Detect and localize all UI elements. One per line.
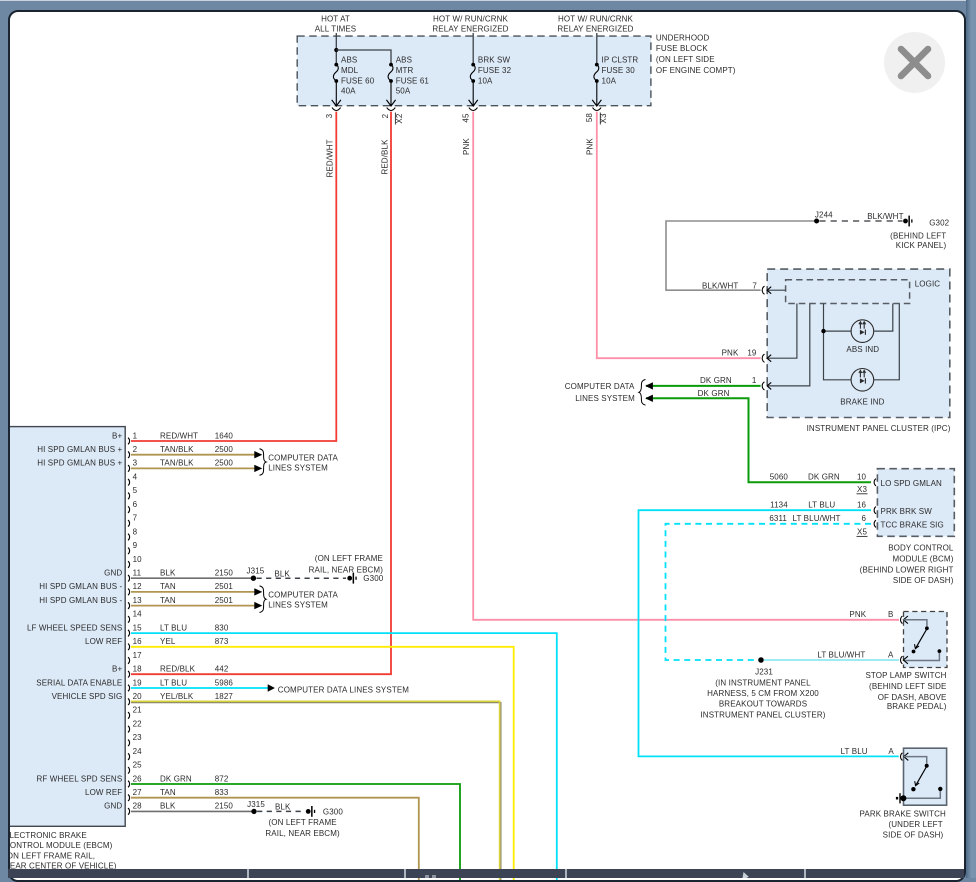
arrow pin19	[268, 684, 275, 692]
pin arrow fuse 30 output	[592, 100, 601, 106]
wire LT BLU pin15 to bottom	[131, 633, 557, 880]
svg-text:45: 45	[462, 113, 471, 123]
wire logic to pin19 PNK	[767, 304, 797, 359]
svg-text:G302: G302	[929, 219, 949, 228]
arrow pin3	[254, 465, 262, 472]
svg-text:(BEHIND LEFT: (BEHIND LEFT	[890, 231, 946, 240]
svg-text:HOT AT: HOT AT	[321, 14, 350, 23]
wire BLK pin28 to J315	[131, 810, 252, 812]
lamp ABS IND	[851, 320, 874, 343]
wire label YEL 873 pin16	[160, 637, 229, 646]
svg-text:OF ENGINE COMPT): OF ENGINE COMPT)	[656, 66, 736, 75]
svg-text:830: 830	[215, 623, 229, 632]
wire feed fuse 60	[335, 33, 337, 64]
svg-text:(ON LEFT FRAME: (ON LEFT FRAME	[315, 554, 383, 563]
svg-text:2150: 2150	[215, 802, 234, 811]
svg-text:PNK: PNK	[722, 349, 739, 358]
arrow pin13	[254, 602, 262, 609]
svg-text:LT BLU/WHT: LT BLU/WHT	[793, 514, 841, 523]
svg-text:10: 10	[857, 473, 867, 482]
svg-text:(BEHIND LOWER RIGHT: (BEHIND LOWER RIGHT	[860, 565, 954, 574]
wire label RED/BLK 442 pin18	[160, 665, 229, 674]
svg-text:PARK BRAKE SWITCH: PARK BRAKE SWITCH	[860, 810, 946, 819]
svg-text:6: 6	[862, 514, 867, 523]
fuse F61 ABS MTR FUSE 61 50A	[388, 63, 393, 106]
brace computer data lines pins 2-3	[260, 449, 267, 476]
svg-text:LF WHEEL SPEED SENS: LF WHEEL SPEED SENS	[27, 623, 122, 632]
svg-text:PRK BRK SW: PRK BRK SW	[881, 507, 933, 516]
svg-text:KICK PANEL): KICK PANEL)	[896, 241, 947, 250]
BCM caption	[860, 544, 954, 585]
wire TAN/BLK pin2	[131, 454, 255, 456]
svg-text:19: 19	[747, 349, 757, 358]
svg-text:BLK: BLK	[160, 802, 176, 811]
svg-text:J231: J231	[755, 668, 773, 677]
svg-text:STOP LAMP SWITCH: STOP LAMP SWITCH	[865, 671, 946, 680]
svg-text:40A: 40A	[341, 87, 356, 96]
svg-text:(ON LEFT FRAME: (ON LEFT FRAME	[268, 818, 336, 827]
wire RED/WHT fuse60 to EBCM pin1	[131, 112, 336, 441]
pin arrow fuse 61 output	[386, 100, 395, 106]
wire label LT BLU 5986 pin19	[160, 678, 233, 687]
svg-text:6311: 6311	[769, 514, 787, 523]
wire label LT BLU/WHT (stop lamp)	[817, 651, 894, 660]
park brake switch box	[904, 748, 947, 805]
svg-text:RF WHEEL SPD SENS: RF WHEEL SPD SENS	[37, 774, 123, 783]
svg-text:HI SPD GMLAN BUS -: HI SPD GMLAN BUS -	[39, 582, 122, 591]
svg-text:HOT W/ RUN/CRNK: HOT W/ RUN/CRNK	[433, 14, 509, 23]
wire TAN/BLK pin3	[131, 467, 255, 469]
wire BLK/WHT dashed to G302	[819, 220, 902, 222]
EBCM pin numbers 1-28	[133, 431, 143, 810]
junction J315 (pin11)	[251, 576, 256, 581]
wire logic to pin1 DK GRN	[767, 304, 810, 386]
svg-text:BLK: BLK	[275, 803, 291, 812]
svg-text:1640: 1640	[215, 431, 234, 440]
svg-text:10A: 10A	[478, 76, 493, 85]
EBCM pin arcs 1-28	[128, 438, 130, 815]
svg-text:MDL: MDL	[341, 66, 359, 75]
svg-text:LO SPD GMLAN: LO SPD GMLAN	[881, 479, 943, 488]
svg-text:CONTROL MODULE (EBCM): CONTROL MODULE (EBCM)	[10, 841, 113, 850]
wire TAN pin27 to bottom	[131, 798, 419, 880]
svg-text:28: 28	[133, 802, 143, 811]
ground at park brake switch	[896, 793, 907, 803]
svg-text:LT BLU: LT BLU	[160, 678, 187, 687]
svg-text:HARNESS, 5 CM FROM X200: HARNESS, 5 CM FROM X200	[707, 689, 819, 698]
svg-text:8: 8	[133, 527, 138, 536]
svg-text:LOW REF: LOW REF	[85, 637, 122, 646]
ground G300 (near pin11)	[347, 573, 383, 584]
svg-text:DK GRN: DK GRN	[700, 376, 732, 385]
ground G300 (near pin28)	[306, 806, 344, 817]
svg-text:10: 10	[133, 555, 143, 564]
connector arc under fuse 61	[387, 108, 396, 111]
svg-text:TAN: TAN	[160, 788, 176, 797]
svg-text:ABS: ABS	[341, 56, 357, 65]
wire feed branch to fuse 61	[336, 50, 391, 64]
svg-text:X5: X5	[857, 527, 867, 536]
svg-text:2500: 2500	[215, 445, 234, 454]
EBCM caption	[4, 831, 117, 871]
wire ABS bulb to logic	[874, 304, 893, 332]
svg-text:LINES SYSTEM: LINES SYSTEM	[268, 601, 328, 610]
svg-text:LT BLU: LT BLU	[841, 747, 868, 756]
svg-text:10A: 10A	[602, 76, 617, 85]
wire logic to indicator bulbs	[824, 304, 851, 380]
switch arm stop lamp	[912, 626, 942, 653]
pin 10 BCM X3	[857, 473, 877, 494]
svg-text:LT BLU: LT BLU	[808, 501, 835, 510]
wire BLK/WHT IPC pin7 to J244	[767, 289, 786, 291]
EBCM module box	[6, 427, 125, 827]
svg-text:7: 7	[133, 514, 138, 523]
svg-text:A: A	[888, 747, 894, 756]
BCM module box	[877, 469, 954, 537]
svg-text:BRAKE IND: BRAKE IND	[840, 398, 884, 407]
close button	[884, 32, 945, 93]
svg-text:16: 16	[133, 637, 143, 646]
switch contacts stop lamp	[903, 620, 939, 661]
svg-text:2500: 2500	[215, 459, 234, 468]
svg-text:58: 58	[585, 113, 594, 123]
arrow pin12	[254, 588, 262, 595]
svg-text:2: 2	[381, 113, 390, 118]
svg-text:COMPUTER DATA: COMPUTER DATA	[565, 382, 635, 391]
svg-text:LINES SYSTEM: LINES SYSTEM	[575, 394, 635, 403]
wire PNK fuse30 to IPC pin19	[597, 112, 761, 359]
connector label X2	[395, 113, 404, 125]
node COMPUTER DATA LINES SYSTEM (pins 12-13)	[268, 591, 338, 610]
svg-text:J315: J315	[247, 567, 265, 576]
IPC module box	[767, 269, 950, 417]
svg-text:23: 23	[133, 733, 143, 742]
svg-text:RELAY ENERGIZED: RELAY ENERGIZED	[432, 25, 508, 34]
svg-text:5060: 5060	[770, 473, 789, 482]
svg-text:(ON LEFT SIDE: (ON LEFT SIDE	[656, 55, 715, 64]
right background strip	[966, 0, 976, 878]
svg-text:4: 4	[133, 473, 138, 482]
junction J315 (pin28)	[251, 809, 256, 814]
svg-text:LT BLU: LT BLU	[160, 623, 187, 632]
svg-text:LOGIC: LOGIC	[915, 280, 941, 289]
svg-text:YEL/BLK: YEL/BLK	[160, 692, 194, 701]
node COMPUTER DATA LINES SYSTEM (IPC side)	[565, 382, 635, 403]
svg-text:PNK: PNK	[849, 610, 866, 619]
svg-text:COMPUTER DATA: COMPUTER DATA	[268, 453, 338, 462]
svg-text:FUSE BLOCK: FUSE BLOCK	[656, 44, 708, 53]
wire LT BLU BCM pin16 to park brake switch	[639, 510, 899, 756]
svg-text:PNK: PNK	[462, 138, 471, 155]
svg-text:BRAKE PEDAL): BRAKE PEDAL)	[887, 702, 947, 711]
svg-text:OF DASH, ABOVE: OF DASH, ABOVE	[878, 693, 947, 702]
wire label TAN/BLK 2500 pin2	[160, 445, 233, 454]
stop lamp switch box	[904, 612, 948, 668]
svg-text:ELECTRONIC BRAKE: ELECTRONIC BRAKE	[10, 831, 87, 840]
wire label BLK 2150 pin11	[160, 569, 233, 578]
svg-text:LINES SYSTEM: LINES SYSTEM	[268, 463, 328, 472]
svg-text:12: 12	[133, 582, 143, 591]
wire DK GRN BCM branch to computer data	[646, 398, 871, 482]
svg-text:SIDE OF DASH): SIDE OF DASH)	[893, 576, 954, 585]
wire label TAN 2501 pin13	[160, 596, 233, 605]
svg-text:TAN/BLK: TAN/BLK	[160, 445, 194, 454]
svg-text:9: 9	[133, 541, 138, 550]
wire label 5060 DK GRN	[770, 473, 840, 482]
svg-text:17: 17	[133, 651, 143, 660]
svg-text:FUSE 32: FUSE 32	[478, 66, 512, 75]
connector arc under fuse 32	[469, 108, 478, 111]
wire label TAN/BLK 2500 pin3	[160, 459, 233, 468]
node COMPUTER DATA LINES SYSTEM (pins 2-3)	[268, 453, 338, 472]
wire LT BLU/WHT dashed BCM pin6 to J231	[666, 524, 872, 660]
pin 19 IPC	[762, 354, 771, 362]
svg-text:X3: X3	[857, 485, 867, 494]
wire PNK fuse32 to stop lamp switch pin B	[473, 112, 899, 620]
svg-text:LT BLU/WHT: LT BLU/WHT	[817, 651, 865, 660]
svg-text:HOT W/ RUN/CRNK: HOT W/ RUN/CRNK	[558, 14, 634, 23]
svg-text:B: B	[888, 610, 893, 619]
fuse F32 BRK SW FUSE 32 10A	[470, 63, 475, 106]
wire BLK pin11 to J315	[131, 577, 251, 579]
svg-text:873: 873	[215, 637, 229, 646]
lamp BRAKE IND	[851, 369, 874, 392]
pin A park brake switch	[901, 753, 909, 761]
fuse F30 IP CLSTR FUSE 30 10A	[594, 63, 599, 106]
pin arrow fuse 60 output	[332, 100, 341, 106]
wire feed fuse 32	[472, 33, 474, 64]
svg-text:(IN INSTRUMENT PANEL: (IN INSTRUMENT PANEL	[715, 678, 811, 687]
label ON LEFT FRAME RAIL NEAR EBCM (pin28)	[265, 818, 340, 838]
svg-text:(BEHIND LEFT SIDE: (BEHIND LEFT SIDE	[869, 682, 946, 691]
wire YEL pin16 to bottom	[131, 647, 514, 880]
value label fuse 30	[602, 56, 639, 86]
svg-text:16: 16	[857, 501, 867, 510]
switch arm park brake	[911, 764, 942, 792]
svg-text:VEHICLE SPD SIG: VEHICLE SPD SIG	[52, 692, 123, 701]
wire LT BLU pin19 serial data	[131, 687, 268, 689]
svg-text:25: 25	[133, 761, 143, 770]
wire label DK GRN 872 pin26	[160, 774, 229, 783]
label BEHIND LEFT KICK PANEL	[890, 231, 946, 250]
svg-text:21: 21	[133, 706, 143, 715]
label HOT AT ALL TIMES	[315, 14, 357, 33]
wire label 6311 LT BLU/WHT	[769, 514, 840, 523]
svg-text:LOW REF: LOW REF	[85, 788, 122, 797]
pin 7 IPC	[762, 286, 771, 294]
svg-text:BLK/WHT: BLK/WHT	[867, 212, 903, 221]
svg-text:1134: 1134	[770, 501, 788, 510]
wire BRAKE bulb to logic	[874, 304, 900, 380]
wire LT BLU/WHT J231 to stop lamp pin A	[764, 659, 899, 661]
svg-text:BODY CONTROL: BODY CONTROL	[888, 544, 954, 553]
svg-text:ABS: ABS	[396, 56, 412, 65]
svg-text:FUSE 60: FUSE 60	[341, 76, 375, 85]
svg-text:TAN: TAN	[160, 582, 176, 591]
svg-text:RED/WHT: RED/WHT	[326, 139, 335, 177]
svg-text:TCC BRAKE SIG: TCC BRAKE SIG	[881, 521, 944, 530]
svg-text:RAIL, NEAR EBCM): RAIL, NEAR EBCM)	[309, 565, 384, 574]
svg-text:RED/BLK: RED/BLK	[381, 139, 390, 175]
value label fuse 61	[396, 56, 430, 96]
svg-text:7: 7	[752, 281, 757, 290]
svg-text:RED/BLK: RED/BLK	[160, 665, 196, 674]
svg-text:HI SPD GMLAN BUS +: HI SPD GMLAN BUS +	[37, 445, 122, 454]
svg-text:2: 2	[133, 445, 138, 454]
value label fuse 60	[341, 56, 375, 96]
svg-text:1: 1	[133, 431, 138, 440]
svg-text:INSTRUMENT PANEL CLUSTER): INSTRUMENT PANEL CLUSTER)	[700, 710, 825, 719]
svg-text:BREAKOUT TOWARDS: BREAKOUT TOWARDS	[719, 699, 807, 708]
svg-text:RED/WHT: RED/WHT	[160, 431, 198, 440]
svg-text:BLK: BLK	[274, 569, 290, 578]
svg-text:SERIAL DATA ENABLE: SERIAL DATA ENABLE	[36, 678, 122, 687]
svg-text:INSTRUMENT PANEL CLUSTER (IPC): INSTRUMENT PANEL CLUSTER (IPC)	[807, 424, 951, 433]
svg-text:1: 1	[752, 376, 757, 385]
svg-text:833: 833	[215, 788, 229, 797]
wire TAN pin12	[131, 591, 255, 593]
svg-text:G300: G300	[363, 574, 383, 583]
svg-text:(ON LEFT FRAME RAIL,: (ON LEFT FRAME RAIL,	[10, 852, 95, 861]
brace computer data lines (IPC side)	[639, 380, 646, 406]
svg-text:IP CLSTR: IP CLSTR	[602, 56, 639, 65]
connector arc under fuse 30	[593, 108, 602, 111]
partial glyph dots in bottom bar	[425, 875, 429, 878]
svg-text:50A: 50A	[396, 87, 411, 96]
svg-text:442: 442	[215, 665, 229, 674]
svg-text:13: 13	[133, 596, 143, 605]
svg-text:B+: B+	[112, 665, 122, 674]
svg-text:5986: 5986	[215, 678, 234, 687]
svg-text:GND: GND	[104, 569, 122, 578]
svg-text:2501: 2501	[215, 596, 234, 605]
wire label DK GRN 1	[700, 376, 757, 385]
svg-text:HI SPD GMLAN BUS -: HI SPD GMLAN BUS -	[39, 596, 122, 605]
svg-text:BLK/WHT: BLK/WHT	[702, 281, 738, 290]
svg-text:872: 872	[215, 774, 229, 783]
svg-text:J315: J315	[247, 800, 265, 809]
stop lamp switch caption	[865, 671, 946, 711]
pin A stop lamp switch	[901, 656, 908, 664]
connector arc under fuse 60	[332, 108, 341, 111]
svg-text:HI SPD GMLAN BUS +: HI SPD GMLAN BUS +	[37, 459, 122, 468]
svg-text:DK GRN: DK GRN	[808, 473, 840, 482]
svg-text:UNDERHOOD: UNDERHOOD	[656, 33, 710, 42]
svg-text:2150: 2150	[215, 569, 234, 578]
brace computer data lines pins 12-13	[260, 586, 267, 613]
svg-text:15: 15	[133, 623, 143, 632]
svg-text:19: 19	[133, 678, 143, 687]
svg-text:J244: J244	[815, 211, 833, 220]
svg-text:24: 24	[133, 747, 143, 756]
arrow computer data (pin1)	[645, 382, 653, 389]
label HOT W/ RUN/CRNK RELAY ENERGIZED (right)	[557, 14, 633, 33]
wire label TAN 2501 pin12	[160, 582, 233, 591]
svg-text:5: 5	[133, 486, 138, 495]
wire label YEL/BLK 1827 pin20	[160, 692, 233, 701]
svg-text:FUSE 30: FUSE 30	[602, 66, 636, 75]
label ON LEFT FRAME RAIL NEAR EBCM (pin11)	[309, 554, 384, 574]
pin B stop lamp switch	[901, 616, 908, 624]
wire label LT BLU 830 pin15	[160, 623, 229, 632]
connector label X3	[599, 113, 608, 125]
logic box	[786, 280, 910, 304]
junction node bulbs	[821, 329, 825, 333]
label J231 caption	[700, 668, 825, 720]
svg-text:14: 14	[133, 610, 143, 619]
svg-text:3: 3	[133, 459, 138, 468]
fuse F60 ABS MDL FUSE 60 40A	[333, 63, 338, 106]
junction J231	[758, 657, 764, 663]
wire label LT BLU (park brake)	[841, 747, 895, 756]
svg-text:ABS IND: ABS IND	[846, 345, 879, 354]
wire label PNK 19	[722, 349, 757, 358]
wire DK GRN IPC pin1 to computer data	[646, 385, 761, 387]
svg-text:ALL TIMES: ALL TIMES	[315, 25, 357, 34]
svg-text:G300: G300	[323, 807, 343, 816]
svg-text:X2: X2	[395, 113, 404, 123]
pin 16 BCM	[857, 501, 876, 514]
wire label PNK (stop lamp)	[849, 610, 893, 619]
svg-text:COMPUTER DATA LINES SYSTEM: COMPUTER DATA LINES SYSTEM	[278, 686, 410, 695]
svg-text:22: 22	[133, 719, 143, 728]
wire DK GRN pin26 to bottom	[131, 784, 460, 880]
svg-text:PNK: PNK	[586, 138, 595, 155]
junction J244	[814, 219, 819, 224]
svg-text:TAN/BLK: TAN/BLK	[160, 459, 194, 468]
svg-text:11: 11	[133, 569, 142, 578]
svg-text:3: 3	[325, 113, 334, 118]
wire RED/BLK fuse61 to EBCM pin18	[131, 112, 391, 675]
svg-text:27: 27	[133, 788, 143, 797]
wire BLK dashed to G300 (pin28)	[257, 810, 305, 812]
svg-text:BRK SW: BRK SW	[478, 56, 511, 65]
svg-text:26: 26	[133, 774, 143, 783]
wire label RED/WHT 1640 pin1	[160, 431, 233, 440]
pin 1 IPC	[762, 382, 771, 390]
wire TAN pin13	[131, 605, 255, 607]
switch contacts park brake	[903, 757, 940, 799]
wire BLK dashed to G300	[257, 577, 347, 579]
wire feed fuse 30	[596, 33, 598, 64]
wire YEL/BLK pin20 to bottom	[131, 703, 501, 880]
label UNDERHOOD FUSE BLOCK	[656, 33, 736, 75]
svg-text:BLK: BLK	[160, 569, 176, 578]
cursor glyph in bottom bar	[742, 872, 754, 878]
underhood fuse block box	[297, 36, 651, 106]
junction feed node	[334, 48, 338, 52]
pin 6 BCM X5	[857, 514, 877, 536]
svg-text:RELAY ENERGIZED: RELAY ENERGIZED	[557, 25, 633, 34]
pin arrow fuse 32 output	[469, 100, 478, 106]
wire label BLK/WHT 7	[702, 281, 757, 290]
park brake switch caption	[860, 810, 946, 840]
svg-text:A: A	[888, 651, 894, 660]
svg-text:TAN: TAN	[160, 596, 176, 605]
top light line	[0, 0, 976, 1]
svg-text:COMPUTER DATA: COMPUTER DATA	[268, 591, 338, 600]
svg-text:MODULE (BCM): MODULE (BCM)	[893, 555, 954, 564]
wire label 1134 LT BLU	[770, 501, 835, 510]
svg-text:2501: 2501	[215, 582, 234, 591]
svg-text:GND: GND	[104, 802, 122, 811]
wire label TAN 833 pin27	[160, 788, 229, 797]
bottom toolbar	[8, 869, 964, 878]
svg-text:DK GRN: DK GRN	[698, 389, 730, 398]
value label fuse 32	[478, 56, 512, 86]
svg-text:YEL: YEL	[160, 637, 176, 646]
svg-text:18: 18	[133, 665, 143, 674]
